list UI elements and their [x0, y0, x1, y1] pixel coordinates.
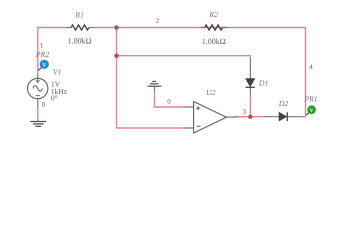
diode D1 bottom lead [249, 88, 251, 96]
svg-text:1: 1 [40, 42, 44, 50]
junction node 2 branch to D1 [114, 53, 119, 58]
wire from ground to op-amp non-inverting input (net 0) [155, 91, 184, 108]
resistor R1 leads [66, 27, 95, 29]
svg-text:V1: V1 [53, 68, 62, 77]
svg-text:0°: 0° [51, 93, 58, 102]
source V1 top lead [37, 73, 39, 78]
ground under V1 stub [37, 120, 39, 122]
wire D2 cathode to output node PR1 [302, 116, 306, 118]
svg-text:V: V [42, 63, 46, 69]
probe PR2 (blue voltage probe) [38, 60, 49, 71]
diode D2 leads [265, 116, 303, 118]
diode D1 top lead [249, 58, 251, 79]
junction node 2 top [114, 25, 119, 30]
source V1 bottom lead [37, 99, 39, 109]
probe PR1 (green voltage probe) [306, 105, 316, 115]
resistor R1 [71, 25, 89, 30]
svg-text:0: 0 [167, 98, 171, 106]
diode D1 [246, 79, 255, 88]
resistor R2 [205, 25, 223, 30]
svg-text:D1: D1 [258, 79, 269, 88]
wire from V1 top up and right to R1 (net 1) [38, 28, 66, 74]
svg-text:U2: U2 [206, 88, 216, 97]
resistor R2 leads [201, 27, 228, 29]
svg-text:0: 0 [42, 100, 46, 108]
svg-text:2: 2 [156, 17, 160, 25]
svg-text:4: 4 [309, 63, 313, 71]
diode D2 [279, 112, 287, 121]
op-amp U1 output lead [226, 116, 238, 118]
wire V1 bottom to ground [37, 108, 39, 119]
op-amp U2 [194, 102, 227, 134]
wire D1 cathode down to node 3 [249, 95, 251, 116]
wire op-amp output to D2 anode (net 3) [239, 116, 265, 118]
junction node 3 [248, 115, 253, 120]
inverted ground above op-amp [147, 81, 161, 86]
svg-text:R1: R1 [74, 10, 84, 19]
wire vertical from node 2 down and right to op-amp inverting input [117, 28, 185, 129]
svg-text:R2: R2 [208, 10, 218, 19]
op-amp U1 input leads [184, 107, 194, 128]
ground under V1 [30, 122, 46, 127]
AC source V1 [28, 78, 48, 98]
svg-text:3: 3 [243, 108, 247, 116]
svg-text:PR2: PR2 [35, 50, 50, 59]
wire from R1 right along top through node 2 to top-right corner and down right side (net 2/4) [95, 28, 306, 117]
svg-text:1.00kΩ: 1.00kΩ [202, 37, 226, 46]
svg-text:PR1: PR1 [303, 94, 318, 103]
wire branch from node 2 vertical to D1 anode [117, 56, 251, 58]
svg-text:D2: D2 [278, 99, 289, 108]
inverted ground above op-amp stem [154, 86, 156, 90]
svg-text:V: V [310, 108, 314, 114]
svg-text:1.00kΩ: 1.00kΩ [68, 36, 92, 45]
